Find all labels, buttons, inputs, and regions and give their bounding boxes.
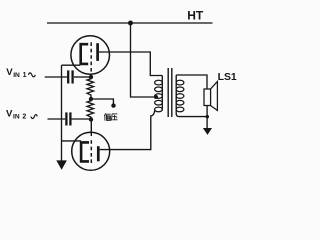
svg-text:LS1: LS1 xyxy=(218,72,237,83)
svg-text:HT: HT xyxy=(187,9,204,23)
svg-text:IN: IN xyxy=(13,114,20,121)
svg-text:2: 2 xyxy=(22,114,26,121)
svg-text:IN: IN xyxy=(13,72,20,79)
svg-text:V: V xyxy=(6,67,13,78)
svg-text:1: 1 xyxy=(23,72,27,79)
svg-text:V: V xyxy=(6,109,13,120)
